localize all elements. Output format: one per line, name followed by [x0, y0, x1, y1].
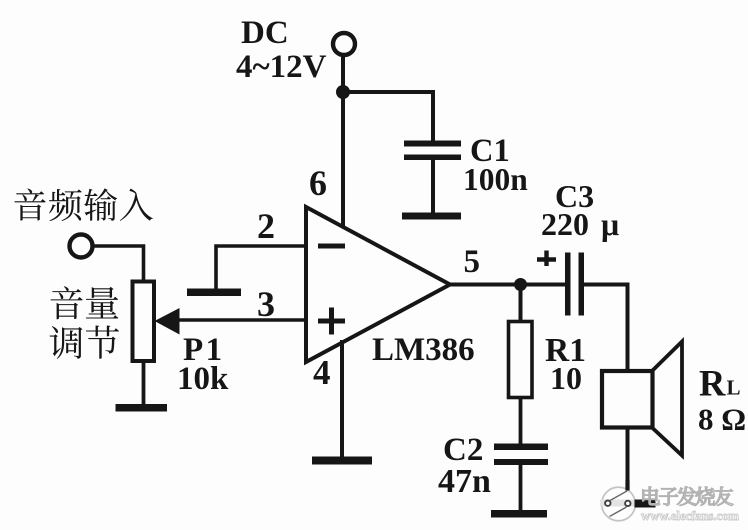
resistor R1 body [509, 322, 533, 398]
svg-text:6: 6 [309, 163, 327, 203]
svg-text:LM386: LM386 [372, 332, 475, 368]
label 音频输入 (audio input) [14, 189, 45, 221]
capacitor C1 [404, 141, 461, 147]
svg-text:5: 5 [464, 244, 481, 280]
ground (speaker), partly behind watermark [635, 500, 656, 508]
DC supply terminal [333, 33, 355, 55]
svg-text:R: R [699, 363, 726, 404]
wire: pin 6 (junction down to op-amp) [341, 92, 345, 230]
svg-text:μ: μ [601, 206, 619, 242]
svg-text:www.elecfans.com: www.elecfans.com [641, 509, 739, 523]
ground (C1) [402, 213, 461, 220]
speaker RL [652, 342, 682, 456]
svg-text:L: L [727, 376, 741, 400]
wire: pin 2 with ground [216, 246, 306, 289]
ground (potentiometer) [116, 404, 168, 412]
potentiometer P1 body [133, 282, 155, 362]
inverting input minus sign [318, 244, 345, 249]
svg-text:220: 220 [541, 206, 589, 242]
svg-text:2: 2 [257, 206, 275, 246]
non-inverting input plus sign [318, 319, 345, 324]
svg-text:3: 3 [257, 284, 275, 324]
ground (pin 4) [312, 457, 372, 465]
wire: junction to C1 [343, 92, 433, 141]
svg-text:47n: 47n [438, 463, 491, 500]
wire: pin 5 output [449, 283, 565, 287]
svg-text:8 Ω: 8 Ω [698, 402, 746, 437]
wire: potentiometer bottom to ground [142, 361, 146, 406]
wire: R1 to C2 [519, 399, 523, 444]
wire: C3 to speaker [584, 285, 628, 372]
potentiometer wiper arrow [155, 308, 180, 335]
node: output junction [514, 278, 527, 291]
capacitor C2 [494, 444, 548, 451]
svg-text:10k: 10k [177, 361, 229, 397]
wire: DC terminal to supply junction [341, 55, 345, 92]
ground (pin 2) [187, 289, 241, 297]
wire: pin 4 to ground [340, 340, 344, 458]
audio input terminal [70, 235, 93, 258]
ground (C2) [491, 510, 547, 518]
wire: speaker lead over watermark [625, 480, 629, 491]
watermark logo switch detail [610, 491, 627, 501]
watermark logo circle [602, 487, 636, 521]
C3 polarity plus sign [537, 257, 556, 261]
op-amp U1 LM386 triangle [306, 207, 450, 362]
wire: input terminal to potentiometer top [93, 246, 144, 282]
wire: junction down to R1 [519, 285, 523, 323]
wire: C2 to ground [519, 464, 523, 511]
svg-text:4: 4 [313, 353, 331, 392]
wire: pin 3 from potentiometer wiper [170, 318, 306, 322]
watermark text 电子发烧友 [643, 487, 660, 505]
label 音量调节 (volume adjust) [50, 286, 82, 319]
svg-text:100n: 100n [463, 162, 528, 197]
node: supply junction [336, 85, 350, 99]
wire: speaker to ground [626, 427, 630, 502]
svg-text:DC: DC [241, 15, 289, 51]
capacitor C3 (electrolytic) [565, 253, 571, 316]
svg-text:4~12V: 4~12V [236, 49, 327, 85]
watermark band [600, 500, 639, 507]
svg-text:10: 10 [550, 360, 582, 396]
